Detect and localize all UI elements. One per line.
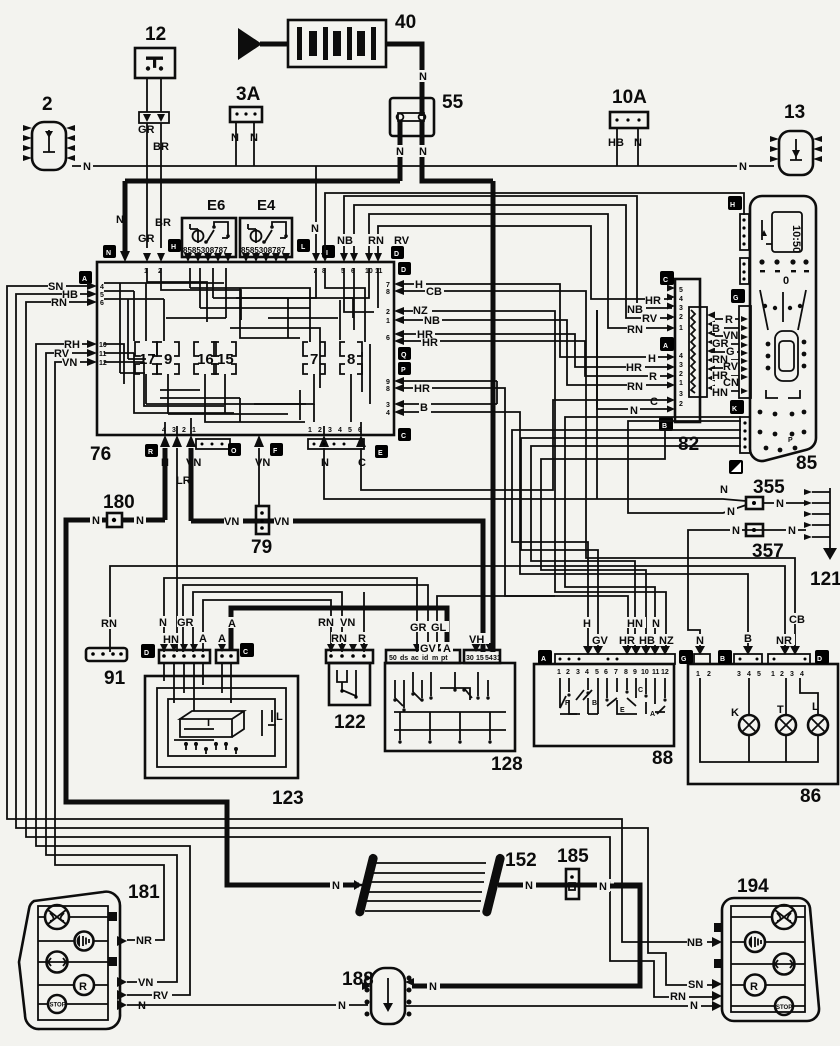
svg-text:HR: HR [619, 635, 635, 647]
svg-text:10: 10 [641, 669, 649, 676]
svg-text:2: 2 [566, 669, 570, 676]
svg-text:3: 3 [679, 362, 683, 369]
svg-text:N: N [159, 617, 167, 629]
svg-text:N: N [739, 161, 747, 173]
svg-text:HR: HR [645, 295, 661, 307]
svg-text:NB: NB [337, 235, 353, 247]
svg-text:A: A [650, 711, 655, 718]
svg-text:6: 6 [604, 669, 608, 676]
svg-text:3: 3 [576, 669, 580, 676]
svg-text:185: 185 [557, 846, 589, 867]
svg-text:5: 5 [348, 427, 352, 434]
svg-text:3: 3 [328, 427, 332, 434]
svg-text:BR: BR [153, 141, 169, 153]
svg-text:N: N [231, 132, 239, 144]
svg-text:15: 15 [217, 351, 234, 368]
svg-text:VN: VN [340, 617, 355, 629]
svg-text:O: O [231, 448, 237, 455]
svg-text:30: 30 [466, 655, 474, 662]
svg-text:F: F [565, 700, 570, 707]
svg-text:122: 122 [334, 712, 366, 733]
svg-text:R: R [148, 449, 153, 456]
svg-text:31: 31 [493, 655, 501, 662]
svg-text:86: 86 [800, 786, 821, 807]
svg-text:RV: RV [153, 990, 169, 1002]
svg-text:0: 0 [783, 275, 789, 287]
svg-text:N: N [652, 618, 660, 630]
svg-text:9: 9 [164, 351, 172, 368]
svg-text:12: 12 [661, 669, 669, 676]
svg-text:RN: RN [670, 991, 686, 1003]
svg-text:7: 7 [310, 351, 318, 368]
svg-text:76: 76 [90, 444, 111, 465]
svg-text:VN: VN [255, 457, 270, 469]
svg-text:A: A [199, 633, 207, 645]
svg-text:123: 123 [272, 788, 304, 809]
svg-text:2: 2 [679, 401, 683, 408]
svg-text:RN: RN [101, 618, 117, 630]
svg-text:RV: RV [642, 313, 658, 325]
svg-text:K: K [732, 406, 737, 413]
svg-text:N: N [720, 484, 728, 496]
svg-text:G: G [733, 295, 739, 302]
svg-text:P: P [788, 437, 793, 444]
svg-text:N: N [92, 515, 100, 527]
svg-text:11: 11 [99, 351, 107, 358]
svg-text:D: D [394, 251, 399, 258]
svg-text:194: 194 [737, 876, 769, 897]
svg-text:4: 4 [386, 410, 390, 417]
svg-text:2: 2 [182, 427, 186, 434]
svg-text:4: 4 [800, 671, 804, 678]
svg-text:B: B [420, 402, 428, 414]
svg-text:CB: CB [789, 614, 805, 626]
svg-text:79: 79 [251, 537, 272, 558]
svg-text:50: 50 [389, 655, 397, 662]
svg-text:N: N [106, 250, 111, 257]
svg-text:9: 9 [633, 669, 637, 676]
svg-text:NZ: NZ [659, 635, 674, 647]
svg-text:8: 8 [347, 351, 355, 368]
svg-text:4: 4 [100, 284, 104, 291]
svg-text:VN: VN [138, 977, 153, 989]
svg-text:NB: NB [627, 304, 643, 316]
svg-text:5: 5 [595, 669, 599, 676]
svg-text:T: T [777, 704, 784, 716]
svg-text:5: 5 [100, 292, 104, 299]
svg-text:H: H [730, 202, 735, 209]
svg-text:H: H [171, 244, 176, 251]
svg-text:4: 4 [679, 353, 683, 360]
svg-text:N: N [776, 498, 784, 510]
svg-text:2: 2 [386, 309, 390, 316]
svg-text:N: N [634, 137, 642, 149]
svg-text:HR: HR [626, 362, 642, 374]
svg-text:7: 7 [614, 669, 618, 676]
svg-text:VH: VH [469, 634, 484, 646]
svg-text:12: 12 [145, 24, 166, 45]
svg-text:4: 4 [747, 671, 751, 678]
svg-text:N: N [396, 146, 404, 158]
svg-text:1: 1 [679, 380, 683, 387]
svg-text:3: 3 [790, 671, 794, 678]
svg-text:355: 355 [753, 477, 785, 498]
svg-text:E: E [378, 450, 383, 457]
svg-text:P: P [401, 367, 406, 374]
svg-text:1: 1 [679, 325, 683, 332]
svg-text:16: 16 [197, 351, 214, 368]
svg-text:121: 121 [810, 569, 840, 590]
svg-text:ac: ac [411, 655, 419, 662]
svg-text:L: L [276, 711, 283, 723]
svg-text:R: R [79, 981, 87, 993]
svg-text:8: 8 [624, 669, 628, 676]
svg-text:N: N [138, 1000, 146, 1012]
svg-text:HN: HN [712, 387, 728, 399]
svg-text:RN: RN [51, 297, 67, 309]
svg-text:GL: GL [431, 622, 447, 634]
svg-text:357: 357 [752, 541, 784, 562]
svg-text:1: 1 [386, 318, 390, 325]
svg-text:F: F [273, 448, 278, 455]
svg-text:HR: HR [422, 337, 438, 349]
svg-text:RV: RV [394, 235, 410, 247]
svg-text:NB: NB [687, 937, 703, 949]
svg-text:A: A [218, 633, 226, 645]
svg-text:180: 180 [103, 492, 135, 513]
svg-text:E: E [620, 707, 625, 714]
svg-text:VN: VN [274, 516, 289, 528]
svg-text:R: R [750, 981, 758, 993]
svg-text:N: N [250, 132, 258, 144]
svg-text:3: 3 [679, 391, 683, 398]
svg-text:R: R [649, 371, 657, 383]
svg-text:10:50: 10:50 [790, 225, 802, 253]
svg-text:I: I [207, 717, 210, 729]
svg-text:Q: Q [401, 352, 407, 359]
svg-text:7: 7 [386, 282, 390, 289]
svg-text:C: C [663, 277, 668, 284]
svg-text:1: 1 [696, 671, 700, 678]
svg-text:N: N [788, 525, 796, 537]
svg-text:N: N [630, 405, 638, 417]
svg-text:8: 8 [386, 386, 390, 393]
svg-text:1: 1 [557, 669, 561, 676]
svg-text:SN: SN [688, 979, 703, 991]
svg-text:6: 6 [386, 335, 390, 342]
svg-text:L: L [301, 244, 306, 251]
svg-text:B: B [592, 700, 597, 707]
svg-text:RN: RN [318, 617, 334, 629]
svg-text:13: 13 [784, 102, 805, 123]
svg-text:HB: HB [608, 137, 624, 149]
svg-text:9: 9 [386, 379, 390, 386]
svg-text:C: C [358, 457, 366, 469]
svg-text:B: B [744, 633, 752, 645]
svg-text:1: 1 [771, 671, 775, 678]
svg-text:E4: E4 [257, 197, 276, 214]
svg-text:55: 55 [442, 92, 464, 113]
svg-text:1: 1 [192, 427, 196, 434]
svg-text:H: H [583, 618, 591, 630]
svg-text:C: C [638, 687, 643, 694]
svg-text:3: 3 [386, 402, 390, 409]
svg-text:2: 2 [42, 94, 53, 115]
svg-text:3: 3 [679, 305, 683, 312]
svg-text:pt: pt [441, 655, 448, 662]
svg-text:A: A [82, 276, 87, 283]
svg-text:4: 4 [162, 427, 166, 434]
svg-text:4: 4 [585, 669, 589, 676]
svg-text:10: 10 [99, 342, 107, 349]
svg-text:N: N [321, 457, 329, 469]
svg-text:152: 152 [505, 850, 537, 871]
svg-text:G: G [681, 656, 687, 663]
svg-text:B: B [712, 323, 720, 335]
svg-text:HN: HN [163, 634, 179, 646]
svg-text:GR: GR [410, 622, 427, 634]
svg-text:N: N [599, 881, 607, 893]
svg-text:GV: GV [592, 635, 609, 647]
svg-text:R: R [725, 314, 733, 326]
svg-text:H: H [415, 279, 423, 291]
svg-text:1: 1 [308, 427, 312, 434]
svg-text:ds: ds [400, 655, 408, 662]
svg-text:B: B [720, 656, 725, 663]
svg-text:N: N [311, 223, 319, 235]
svg-text:6: 6 [100, 300, 104, 307]
svg-text:A: A [663, 343, 668, 350]
svg-text:GR: GR [177, 617, 194, 629]
svg-text:188: 188 [342, 969, 374, 990]
svg-text:D: D [817, 656, 822, 663]
svg-text:GR: GR [138, 233, 155, 245]
svg-text:R: R [358, 633, 366, 645]
svg-text:B: B [662, 423, 667, 430]
svg-text:N: N [83, 161, 91, 173]
svg-text:HB: HB [639, 635, 655, 647]
svg-text:GR: GR [138, 124, 155, 136]
svg-text:NB: NB [424, 315, 440, 327]
svg-text:C: C [650, 396, 658, 408]
svg-text:12: 12 [99, 360, 107, 367]
svg-text:A: A [443, 643, 451, 655]
svg-text:N: N [727, 506, 735, 518]
svg-text:m: m [432, 655, 438, 662]
svg-text:5: 5 [679, 287, 683, 294]
svg-text:C: C [401, 433, 406, 440]
svg-text:4: 4 [679, 296, 683, 303]
svg-text:2: 2 [679, 371, 683, 378]
svg-text:VN: VN [224, 516, 239, 528]
svg-text:5: 5 [757, 671, 761, 678]
svg-text:H: H [648, 353, 656, 365]
svg-text:4: 4 [338, 427, 342, 434]
svg-text:RN: RN [331, 633, 347, 645]
svg-text:RN: RN [627, 381, 643, 393]
svg-text:HN: HN [627, 618, 643, 630]
svg-text:N: N [525, 880, 533, 892]
svg-text:N: N [136, 515, 144, 527]
svg-text:2: 2 [707, 671, 711, 678]
svg-text:STOP: STOP [776, 1005, 792, 1011]
svg-text:2: 2 [780, 671, 784, 678]
svg-text:54: 54 [485, 655, 493, 662]
svg-text:2: 2 [679, 314, 683, 321]
svg-text:id: id [422, 655, 428, 662]
svg-text:6: 6 [358, 427, 362, 434]
svg-text:3: 3 [172, 427, 176, 434]
svg-text:GV: GV [420, 643, 437, 655]
svg-text:D: D [401, 267, 406, 274]
svg-text:3: 3 [737, 671, 741, 678]
svg-text:N: N [332, 880, 340, 892]
svg-text:N: N [696, 635, 704, 647]
svg-text:3A: 3A [236, 84, 261, 105]
svg-text:88: 88 [652, 748, 673, 769]
svg-text:N: N [690, 1000, 698, 1012]
svg-text:85: 85 [796, 453, 818, 474]
svg-text:D: D [144, 650, 149, 657]
svg-text:N: N [429, 981, 437, 993]
svg-text:RN: RN [368, 235, 384, 247]
svg-text:C: C [243, 649, 248, 656]
svg-text:11: 11 [652, 669, 660, 676]
svg-text:128: 128 [491, 754, 523, 775]
svg-text:NR: NR [776, 635, 792, 647]
svg-text:RN: RN [627, 324, 643, 336]
svg-text:N: N [732, 525, 740, 537]
svg-text:HR: HR [414, 383, 430, 395]
svg-text:VN: VN [186, 457, 201, 469]
svg-text:K: K [731, 707, 739, 719]
svg-text:STOP: STOP [50, 1003, 66, 1009]
svg-text:BR: BR [155, 217, 171, 229]
svg-text:181: 181 [128, 882, 160, 903]
svg-text:VN: VN [62, 357, 77, 369]
svg-text:40: 40 [395, 12, 416, 33]
svg-text:I: I [326, 250, 328, 257]
svg-text:A: A [228, 618, 236, 630]
svg-text:N: N [419, 71, 427, 83]
svg-text:8: 8 [386, 289, 390, 296]
svg-text:N: N [419, 146, 427, 158]
svg-text:10A: 10A [612, 87, 647, 108]
svg-text:91: 91 [104, 668, 126, 689]
svg-text:N: N [338, 1000, 346, 1012]
svg-text:2: 2 [318, 427, 322, 434]
svg-text:E6: E6 [207, 197, 225, 214]
svg-text:A: A [541, 656, 546, 663]
svg-text:15: 15 [476, 655, 484, 662]
svg-text:CB: CB [426, 286, 442, 298]
svg-text:NR: NR [136, 935, 152, 947]
